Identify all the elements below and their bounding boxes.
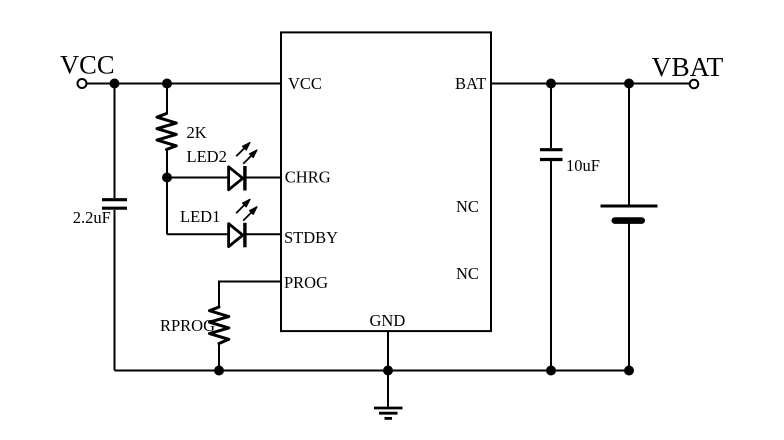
svg-text:LED1: LED1 — [180, 207, 220, 226]
svg-text:RPROG: RPROG — [160, 316, 215, 335]
svg-text:VCC: VCC — [288, 74, 322, 93]
svg-text:NC: NC — [456, 197, 479, 216]
svg-text:VCC: VCC — [60, 50, 115, 80]
svg-text:10uF: 10uF — [566, 156, 600, 175]
svg-text:2.2uF: 2.2uF — [73, 208, 111, 227]
svg-text:2K: 2K — [187, 123, 207, 142]
svg-text:BAT: BAT — [455, 74, 486, 93]
svg-text:VBAT: VBAT — [652, 51, 724, 82]
svg-text:PROG: PROG — [284, 273, 328, 292]
svg-text:LED2: LED2 — [187, 147, 227, 166]
svg-text:GND: GND — [370, 311, 406, 330]
svg-text:NC: NC — [456, 264, 479, 283]
svg-text:STDBY: STDBY — [284, 228, 338, 247]
svg-text:CHRG: CHRG — [285, 168, 331, 187]
